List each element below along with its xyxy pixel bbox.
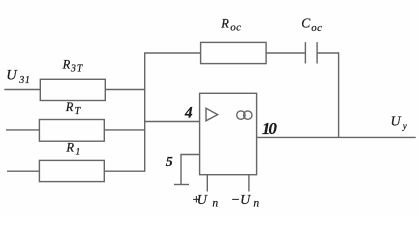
svg-text:U: U	[391, 115, 402, 130]
svg-text:C: C	[301, 16, 311, 31]
svg-text:1: 1	[76, 147, 81, 157]
svg-text:R: R	[62, 58, 71, 72]
svg-text:31: 31	[18, 75, 30, 86]
svg-text:5: 5	[166, 155, 173, 170]
svg-text:R: R	[220, 17, 229, 31]
svg-text:4: 4	[184, 105, 193, 122]
svg-text:10: 10	[262, 119, 278, 138]
svg-text:−U: −U	[231, 193, 251, 208]
svg-text:у: у	[402, 121, 407, 131]
svg-text:R: R	[65, 100, 74, 114]
svg-text:U: U	[6, 68, 18, 84]
svg-text:3Т: 3Т	[70, 64, 84, 75]
svg-text:Т: Т	[75, 106, 82, 117]
svg-text:U: U	[197, 193, 208, 208]
svg-text:R: R	[65, 141, 74, 155]
svg-text:ос: ос	[230, 22, 241, 34]
svg-text:п: п	[253, 197, 259, 209]
svg-text:п: п	[212, 197, 218, 209]
svg-text:ос: ос	[311, 22, 322, 34]
